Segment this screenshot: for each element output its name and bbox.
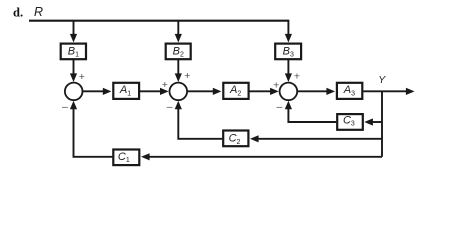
wire feedback vertical from Y junction [381,91,383,156]
svg-text:R: R [34,5,43,19]
arrowhead into A1 [103,88,112,95]
block A2 box [223,83,248,99]
block A1 box [113,83,139,99]
wire A2 to sum3 [250,90,273,92]
arrowhead into B2 [175,34,182,43]
block C3 box [337,114,363,130]
wire sum3 to A3 [298,90,328,92]
wire Y to C3 [372,121,383,123]
block B1 box [61,44,86,60]
svg-text:+: + [294,71,300,83]
summing junction sum2 [170,83,188,101]
wire sum2 to A2 [188,90,215,92]
wire B1 to sum1 [73,60,75,76]
wire B3 to sum3 [287,60,289,76]
arrowhead into sum1 top [70,73,77,82]
wire R top distribution line [29,20,288,22]
svg-text:–: – [62,101,68,113]
wire B2 to sum2 [177,60,179,76]
arrowhead into sum1 bottom [70,101,77,110]
arrowhead into sum2 top [175,73,182,82]
arrowhead into B3 [285,34,292,43]
arrowhead into C2 [250,135,259,142]
arrowhead into A2 [213,88,222,95]
wire A3 to output Y [363,90,408,92]
wire A1 to sum2 [140,90,162,92]
svg-text:+: + [273,79,279,91]
arrowhead into A3 [326,88,335,95]
arrowhead into sum3 bottom [285,101,292,110]
summing junction sum1 [65,83,83,101]
wire branch down to B3 [287,20,289,37]
svg-text:–: – [167,101,173,113]
arrowhead output Y [406,88,415,95]
block C2 box [223,131,248,147]
summing junction sum3 [280,83,298,101]
arrowhead into C3 [364,118,373,125]
arrowhead into B1 [70,34,77,43]
svg-text:Y: Y [378,74,386,86]
block A3 box [337,83,362,99]
wire Y to C1 [149,156,383,158]
arrowhead into sum3 left [270,88,279,95]
arrowhead into C1 [141,153,150,160]
svg-text:–: – [276,101,282,113]
wire C2 to sum2 [178,105,222,139]
svg-text:+: + [162,79,168,91]
block B2 box [166,44,191,60]
wire sum1 to A1 [83,90,105,92]
wire C1 to sum1 [74,105,113,157]
block C1 box [113,150,139,166]
arrowhead into sum3 top [285,73,292,82]
block B3 box [275,44,301,60]
wire branch down to B1 [73,21,75,37]
wire branch down to B2 [177,21,179,37]
svg-text:d.: d. [13,6,23,20]
svg-text:+: + [184,70,190,82]
wire C3 to sum3 [288,105,336,122]
arrowhead into sum2 bottom [175,101,182,110]
wire Y to C2 [258,138,383,140]
svg-text:+: + [79,71,85,83]
arrowhead into sum2 left [160,88,169,95]
